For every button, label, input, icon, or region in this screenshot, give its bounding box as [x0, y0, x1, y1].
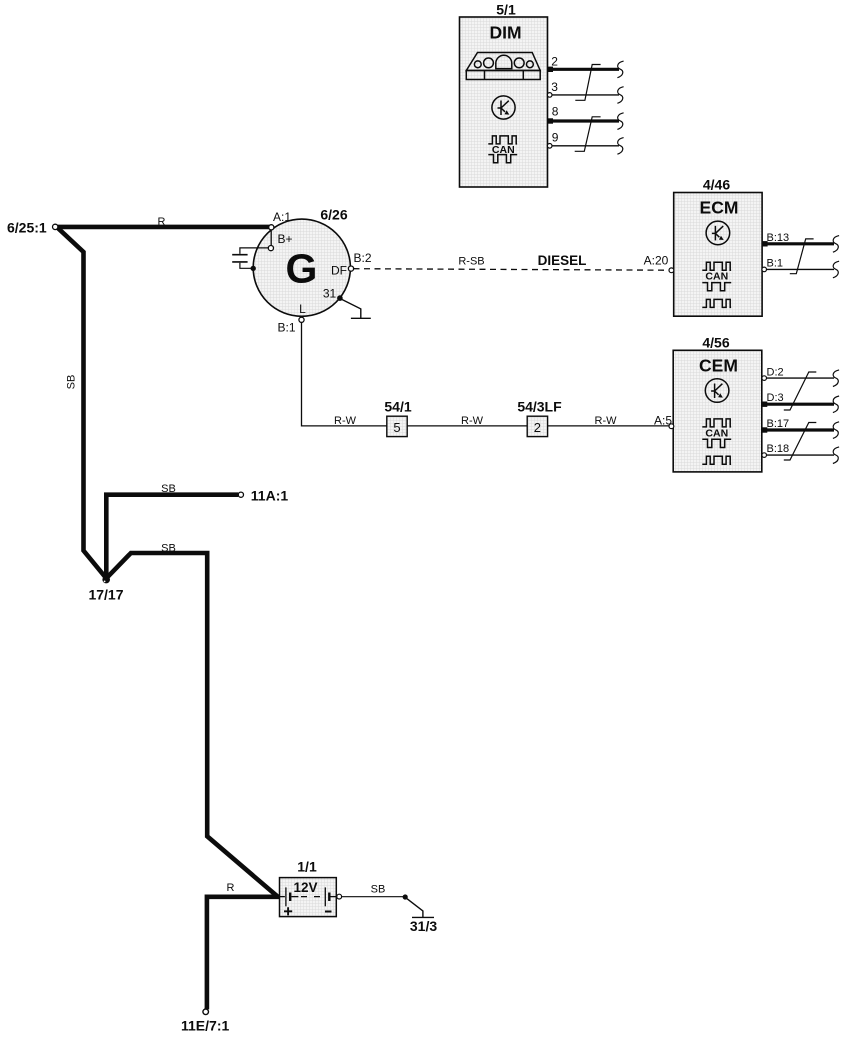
control module 5/1 DIM box: [460, 17, 548, 187]
wire end curl pin 9: [617, 138, 623, 155]
node frame junction dot: [251, 266, 256, 271]
svg-text:1/1: 1/1: [297, 859, 317, 875]
svg-text:12V: 12V: [293, 880, 317, 895]
pin A:20: [669, 268, 674, 273]
svg-text:B+: B+: [277, 232, 292, 246]
svg-text:R-W: R-W: [334, 415, 357, 427]
wire B:13 thick: [764, 242, 834, 245]
twisted pair slash D:2 D:3: [784, 372, 817, 410]
pin B:13 stub: [762, 241, 768, 246]
svg-text:54/3LF: 54/3LF: [517, 399, 562, 415]
svg-text:17/17: 17/17: [88, 587, 123, 603]
wire pin 2 thick: [550, 68, 620, 71]
svg-text:31/3: 31/3: [410, 918, 437, 934]
svg-text:4/56: 4/56: [702, 335, 729, 351]
pin 3 circle: [547, 93, 552, 98]
pin B:1 circle: [762, 267, 767, 272]
svg-text:SB: SB: [161, 543, 176, 555]
wire end curl pin 8: [617, 113, 623, 130]
wire end curl B:1: [833, 261, 839, 278]
wire pin 8 thick: [550, 119, 620, 122]
pin 2 stub: [548, 67, 554, 72]
wire D:3 thick: [764, 403, 834, 406]
svg-text:R-SB: R-SB: [458, 256, 484, 268]
ground 31/3: [407, 898, 435, 917]
svg-text:5/1: 5/1: [496, 2, 516, 18]
wire end curl B:18: [833, 447, 839, 464]
svg-text:SB: SB: [371, 884, 386, 896]
capacitor lead to frame: [240, 263, 252, 269]
wire B:17 thick: [764, 428, 834, 431]
wire B:18 thin: [767, 454, 835, 456]
svg-text:9: 9: [552, 130, 559, 144]
svg-text:R: R: [158, 216, 166, 228]
svg-text:D:2: D:2: [767, 367, 784, 379]
svg-text:CAN: CAN: [705, 271, 728, 283]
svg-text:B:13: B:13: [767, 232, 790, 244]
wire end curl pin 3: [617, 87, 623, 104]
data link K icon CEM: [705, 379, 729, 403]
wire R-W splice to splice: [407, 425, 527, 427]
wire A:1 to B+: [270, 230, 272, 246]
svg-text:DIESEL: DIESEL: [538, 253, 587, 268]
splice 54/1 box: [387, 416, 407, 436]
wire R thick 6/25:1 to A:1: [58, 225, 272, 230]
label plus: [284, 907, 292, 915]
wire R battery to 11E/7:1: [207, 897, 280, 1010]
connector 11A:1: [238, 492, 243, 497]
CAN bus symbol DIM: [488, 136, 517, 163]
svg-text:SB: SB: [66, 375, 78, 390]
battery plates: [280, 887, 337, 906]
svg-text:B:2: B:2: [353, 251, 371, 265]
wire end curl B:17: [833, 422, 839, 439]
ground at pin 31: [342, 299, 371, 318]
wire SB branch to battery: [106, 553, 278, 897]
svg-text:CEM: CEM: [699, 355, 738, 375]
CAN bus symbol ECM: [702, 262, 731, 307]
control module 4/56 CEM box: [673, 350, 762, 472]
twisted pair slash B:17 B:18: [784, 423, 817, 461]
svg-text:R-W: R-W: [461, 415, 484, 427]
wire R-W to CEM A:5: [548, 425, 669, 427]
svg-text:L: L: [299, 302, 306, 316]
connector 11E/7:1: [203, 1009, 209, 1015]
capacitor plates: [232, 255, 247, 262]
capacitor lead from B+: [240, 248, 268, 254]
splice 54/3LF box: [527, 416, 547, 436]
svg-text:B:18: B:18: [767, 443, 790, 455]
control module 4/46 ECM box: [674, 193, 762, 317]
pin A:5: [669, 424, 674, 429]
svg-text:R: R: [227, 882, 235, 894]
svg-text:SB: SB: [161, 483, 176, 495]
svg-text:CAN: CAN: [705, 427, 728, 439]
svg-text:31: 31: [323, 287, 337, 301]
pin B:17 stub: [762, 427, 768, 432]
svg-text:11E/7:1: 11E/7:1: [181, 1018, 229, 1034]
CAN bus symbol CEM: [702, 419, 731, 464]
twisted pair slash pins 2-3: [575, 65, 600, 101]
svg-text:A:20: A:20: [644, 254, 669, 268]
data link K icon ECM: [706, 221, 730, 245]
svg-text:4/46: 4/46: [703, 177, 730, 193]
node 17/17 junction: [106, 495, 238, 579]
wire SB main vertical: [58, 228, 107, 579]
pin A:1: [269, 225, 274, 230]
svg-text:11A:1: 11A:1: [251, 488, 289, 504]
wire end curl B:13: [833, 236, 839, 253]
twisted pair slash B:13 B:1: [790, 239, 814, 274]
wire pin 9 thin: [552, 145, 619, 147]
battery terminal circle: [337, 894, 342, 899]
wire end curl D:3: [833, 396, 839, 413]
svg-text:B:1: B:1: [767, 257, 784, 269]
wire SB battery to ground: [342, 896, 404, 898]
svg-text:6/25:1: 6/25:1: [7, 220, 47, 236]
twisted pair slash pins 8-9: [575, 117, 601, 152]
battery 1/1 box: [280, 878, 337, 917]
pin D:3 stub: [762, 402, 768, 407]
node ground dot: [403, 894, 408, 899]
svg-text:A:1: A:1: [273, 210, 291, 224]
pin 8 stub: [548, 118, 554, 123]
dashed wire DF to ECM A:20: [354, 269, 670, 271]
svg-text:2: 2: [551, 54, 558, 68]
svg-text:ECM: ECM: [700, 198, 739, 218]
wire D:2 thin: [767, 377, 835, 379]
wire R-W from L to splice 54/1: [302, 322, 387, 426]
svg-text:54/1: 54/1: [384, 399, 411, 415]
pin B+: [268, 246, 273, 251]
svg-text:D:3: D:3: [767, 392, 784, 404]
svg-text:B:17: B:17: [767, 418, 790, 430]
svg-text:G: G: [286, 246, 318, 292]
svg-text:2: 2: [534, 420, 541, 435]
wire end curl D:2: [833, 370, 839, 387]
svg-text:5: 5: [393, 420, 400, 435]
pin L: [299, 317, 304, 322]
generator 6/26 circle: [253, 219, 350, 316]
svg-text:B:1: B:1: [277, 321, 295, 335]
label minus: [325, 911, 332, 913]
svg-text:8: 8: [552, 104, 559, 118]
svg-text:DF: DF: [331, 264, 347, 278]
svg-text:6/26: 6/26: [320, 207, 347, 223]
pin D:2 circle: [762, 376, 767, 381]
pin DF: [348, 266, 353, 271]
data link K icon DIM: [492, 96, 515, 119]
pin 31 dot: [337, 295, 343, 301]
pin B:18 circle: [762, 453, 767, 458]
svg-text:CAN: CAN: [492, 144, 515, 156]
svg-text:DIM: DIM: [489, 23, 521, 43]
wire end curl pin 2: [617, 61, 623, 78]
connector 6/25:1: [53, 224, 58, 229]
node 17/17 junction blob: [102, 576, 110, 584]
wire pin 3 thin: [552, 94, 619, 96]
pin 9 circle: [547, 144, 552, 149]
wire B:1 thin: [767, 268, 835, 270]
instrument cluster icon: [466, 53, 540, 80]
svg-text:3: 3: [551, 80, 558, 94]
svg-text:R-W: R-W: [595, 415, 618, 427]
